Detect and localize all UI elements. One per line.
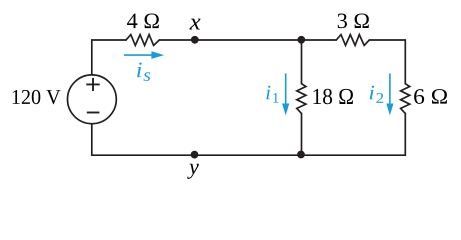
label i_2	[370, 86, 384, 103]
label node x	[189, 19, 200, 30]
label 3 ohm	[338, 14, 369, 29]
voltage source V 120V circle	[68, 75, 117, 124]
top junction dot	[297, 36, 305, 44]
wire: source bottom to bottom rail	[91, 124, 93, 155]
current arrow i1	[282, 73, 289, 115]
label 4 ohm	[127, 14, 159, 29]
resistor R 18ohm zigzag (vertical)	[297, 84, 306, 114]
wire: 6ohm down to bottom-right corner	[404, 113, 406, 155]
label i_s	[137, 62, 150, 81]
label i_1	[266, 86, 278, 103]
node y dot	[191, 151, 199, 159]
current arrow i2	[386, 73, 393, 115]
resistor R 3ohm zigzag	[336, 35, 369, 46]
minus sign of source	[87, 112, 100, 114]
label 18 ohm	[313, 89, 352, 105]
label 6 ohm	[414, 89, 447, 104]
wire: 4ohm to top junction through node x	[159, 39, 301, 41]
wire: top junction down to 18ohm	[301, 40, 303, 84]
wire: 3ohm to top-right corner down to 6ohm	[369, 40, 405, 84]
label 120 V	[13, 90, 61, 104]
label node y	[187, 164, 199, 179]
wire: bottom rail	[92, 154, 406, 156]
bottom junction dot	[297, 151, 305, 159]
resistor R 4ohm zigzag	[126, 35, 159, 46]
wire top-left: source top to 4ohm	[92, 40, 126, 74]
plus sign of source	[86, 78, 99, 91]
current arrow i_s	[124, 51, 164, 59]
node x dot	[191, 36, 199, 44]
resistor R 6ohm zigzag (vertical)	[401, 84, 410, 114]
wire: top junction to 3ohm	[302, 39, 337, 41]
wire: 18ohm to bottom junction	[301, 113, 303, 155]
